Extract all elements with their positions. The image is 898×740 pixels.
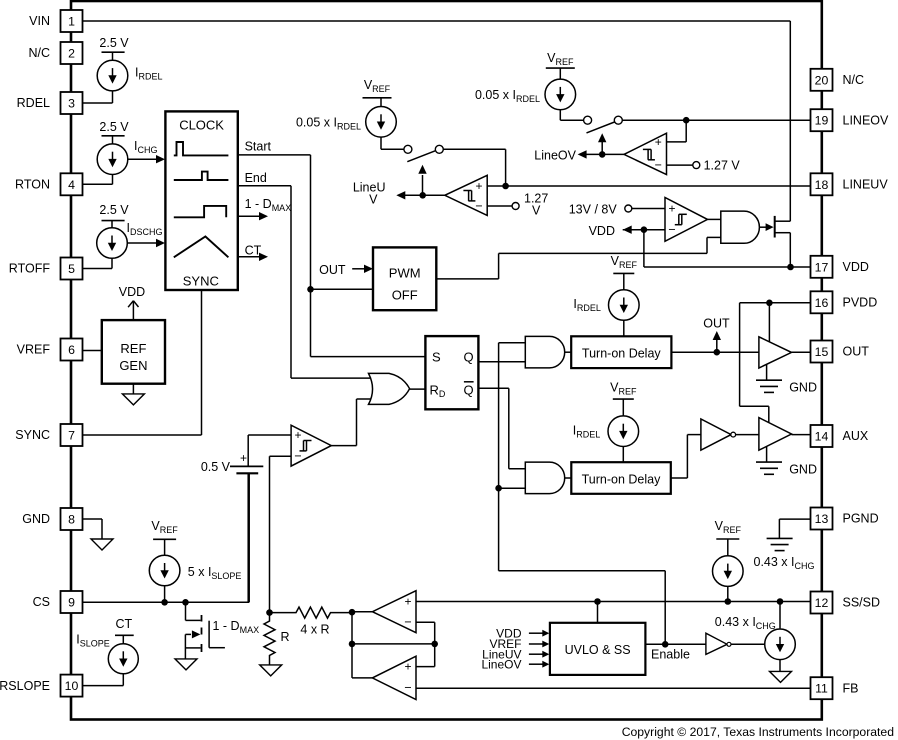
- block PWM OFF: [373, 247, 436, 310]
- label Enable: [651, 648, 690, 662]
- svg-text:+: +: [668, 201, 675, 215]
- pin 10 RSLOPE: [61, 675, 83, 697]
- svg-text:+: +: [294, 428, 301, 442]
- wire latch Q output to AND gate A1: [478, 361, 525, 363]
- pin 12 SS/SD: [811, 592, 833, 614]
- junction dot PWM OFF tap on Start line: [307, 286, 314, 293]
- pin label LINEOV: [843, 113, 890, 127]
- current source IDSCHG: [83, 221, 128, 269]
- pin label VREF: [17, 343, 51, 357]
- svg-text:End: End: [245, 171, 267, 185]
- current source 0.43 x ICHG pullup: [713, 539, 744, 602]
- pin label SYNC: [15, 428, 50, 442]
- label IRDEL delay 1: [573, 297, 601, 313]
- wire OUT driver to pin 15: [792, 351, 811, 353]
- pin label LINEUV: [843, 178, 889, 192]
- arrow OUT into PWM OFF: [352, 265, 373, 273]
- comparator U2 LINEOV: [624, 133, 667, 174]
- vref header for delay source 1: [611, 254, 638, 273]
- AND gate A1: [525, 336, 564, 368]
- clock waveform start pulse: [174, 142, 229, 155]
- svg-text:+: +: [475, 179, 482, 193]
- svg-text:9: 9: [68, 596, 75, 610]
- wire node N2 to comparator input node N3: [352, 643, 435, 645]
- pin 5 RTOFF: [61, 258, 83, 280]
- svg-text:6: 6: [68, 343, 75, 357]
- wire PWM OFF input from Start line: [311, 288, 374, 290]
- svg-text:LineOV: LineOV: [481, 657, 521, 671]
- wire LineUV output arrow: [396, 191, 445, 199]
- clock output arrow CT: [238, 253, 268, 261]
- svg-text:N/C: N/C: [28, 46, 50, 60]
- svg-text:VDD: VDD: [589, 224, 615, 238]
- wire comparator A plus input to SS/SD line: [416, 601, 811, 603]
- pin label RSLOPE: [0, 679, 50, 693]
- label VDD at comparator U3: [589, 224, 615, 238]
- label GND AUX driver: [789, 463, 817, 477]
- label 4 x R: [300, 623, 329, 637]
- label LineUV: [353, 181, 386, 207]
- label IRDEL delay 2: [573, 424, 601, 440]
- pin label OUT: [843, 345, 870, 359]
- svg-text:SS/SD: SS/SD: [843, 596, 881, 610]
- svg-text:1: 1: [68, 15, 75, 29]
- arrow VDD node pointing left: [623, 226, 632, 234]
- pin 20 N/C: [811, 69, 833, 91]
- pin label VDD: [843, 260, 869, 274]
- label 5 x ISLOPE: [188, 565, 242, 581]
- label 0.5 V: [201, 460, 231, 474]
- current source ICHG: [83, 136, 128, 185]
- switch LINEOV: [584, 116, 623, 133]
- svg-text:SYNC: SYNC: [183, 274, 219, 289]
- wire comparator B minus input to FB pin 11 line: [416, 687, 811, 689]
- svg-text:VIN: VIN: [29, 14, 50, 28]
- inverter Enable: [706, 633, 731, 654]
- svg-text:+: +: [404, 660, 411, 674]
- junction dot LineUV output: [419, 192, 426, 199]
- comparator B: [372, 656, 416, 699]
- wire PVDD rail pin 16 to drivers: [740, 303, 811, 423]
- arrow VDD into UVLO: [529, 630, 549, 637]
- pin 6 VREF: [61, 339, 83, 361]
- junction dot SS/SD at UVLO: [594, 598, 601, 605]
- wire node N3 to comparator A minus and comparator B plus: [416, 622, 435, 666]
- junction dot LINEUV sense tap: [502, 183, 509, 190]
- wire comparator U5 output to OR gate lower input: [331, 399, 376, 446]
- junction dot Enable net at AND gate A2 input: [495, 485, 502, 492]
- wire VIN pin1 to internal switch drain: [83, 21, 791, 221]
- svg-text:1.27 V: 1.27 V: [704, 159, 741, 173]
- arrow LineUV into UVLO: [529, 651, 549, 658]
- pin 18 LINEUV: [811, 173, 833, 195]
- label VDD input UVLO: [496, 626, 522, 640]
- junction dot LINEOV sense tap: [683, 117, 690, 124]
- ground below Dmax switch: [175, 659, 197, 670]
- svg-text:2.5 V: 2.5 V: [99, 203, 129, 217]
- label 1.27 V for U2: [704, 159, 741, 173]
- label LineOV input UVLO: [481, 657, 521, 671]
- arrow VDD out of REF GEN: [128, 301, 138, 320]
- wire PGND pin 13 to ground: [779, 519, 810, 538]
- pin 2 N/C: [61, 42, 83, 64]
- svg-text:Turn-on Delay: Turn-on Delay: [582, 473, 661, 487]
- MOSFET Q2 Dmax switch: [185, 602, 201, 659]
- current source IRDEL delay 2: [608, 399, 639, 462]
- svg-text:CT: CT: [115, 617, 132, 631]
- svg-text:GND: GND: [789, 381, 817, 395]
- junction dot PVDD feed OUT driver: [766, 300, 773, 307]
- arrow LineOV into UVLO: [529, 661, 549, 668]
- wire Turn-on Delay 1 to OUT driver: [671, 351, 759, 353]
- ground for OUT driver: [756, 364, 782, 392]
- label IDSCHG: [127, 221, 163, 237]
- pin label PVDD: [843, 296, 878, 310]
- svg-text:FB: FB: [843, 681, 859, 695]
- junction dot MOSFET source at VDD rail: [787, 264, 794, 271]
- svg-text:2.5 V: 2.5 V: [99, 36, 129, 50]
- gate bracket 1-DMAX: [209, 621, 225, 648]
- svg-text:17: 17: [815, 260, 829, 274]
- svg-text:Turn-on Delay: Turn-on Delay: [582, 347, 661, 361]
- clock waveform end pulse: [174, 172, 229, 180]
- wire UVLO Enable output to inverter: [645, 643, 706, 645]
- svg-text:OUT: OUT: [319, 263, 346, 277]
- pin label N/C: [843, 73, 865, 87]
- junction dot node N2: [349, 641, 356, 648]
- label 1 - DMAX output: [245, 197, 292, 213]
- wire UVLO top feed from SS/SD line: [597, 602, 599, 623]
- wire AND U4 to MOSFET gate: [759, 223, 773, 231]
- svg-text:OUT: OUT: [703, 317, 730, 331]
- arrow LineOV to switch: [598, 133, 606, 154]
- voltage label 2.5 V for ICHG source: [99, 120, 129, 136]
- current source IRDEL: [83, 52, 128, 103]
- svg-text:REF: REF: [120, 341, 146, 356]
- resistor 4 x R: [270, 607, 353, 618]
- svg-text:−: −: [655, 158, 662, 172]
- pin label SS/SD: [843, 596, 881, 610]
- comparator A: [372, 591, 416, 633]
- label 1 - DMAX gate: [213, 619, 260, 635]
- svg-text:V: V: [369, 193, 378, 207]
- label 0.05 x IRDEL OV: [475, 88, 540, 104]
- wire VDD node down to pin 17 rail: [644, 230, 811, 267]
- svg-text:12: 12: [815, 596, 829, 610]
- wire Enable net vertical to AND gates: [499, 343, 666, 645]
- svg-text:−: −: [475, 199, 482, 213]
- svg-text:5: 5: [68, 262, 75, 276]
- svg-text:PWM: PWM: [389, 266, 421, 281]
- wire Enable net to AND gate A2 lower input: [499, 487, 526, 489]
- svg-text:Copyright © 2017, Texas Instru: Copyright © 2017, Texas Instruments Inco…: [622, 725, 894, 739]
- svg-text:−: −: [404, 681, 411, 695]
- label Start: [245, 140, 272, 154]
- wire PVDD down to OUT driver: [768, 303, 770, 342]
- pin 7 SYNC: [61, 424, 83, 446]
- pin label VIN: [29, 14, 50, 28]
- svg-text:GND: GND: [789, 463, 817, 477]
- block UVLO and SS: [550, 623, 646, 675]
- pin label PGND: [843, 512, 879, 526]
- junction dot CS at Dmax switch: [182, 599, 189, 606]
- AND gate U4: [721, 211, 760, 243]
- comparator U3 VDD monitor: [665, 198, 708, 242]
- clock block CLOCK: [165, 111, 237, 290]
- copyright notice: [622, 725, 894, 739]
- svg-text:18: 18: [815, 178, 829, 192]
- ground at pin 8: [83, 519, 114, 550]
- svg-text:−: −: [404, 615, 411, 629]
- label R: [281, 630, 290, 644]
- terminal 13V/8V: [625, 205, 632, 212]
- wire Start: clock to S input of latch: [238, 155, 426, 357]
- pin 17 VDD: [811, 256, 833, 278]
- block REF GEN: [102, 320, 165, 384]
- comparator U5 PWM: [291, 425, 331, 466]
- pin label RDEL: [17, 96, 50, 110]
- current source 5 x ISLOPE: [149, 539, 180, 602]
- label GND OUT driver: [789, 381, 817, 395]
- svg-text:+: +: [240, 451, 247, 465]
- current source ISLOPE: [83, 635, 139, 685]
- svg-text:2: 2: [68, 47, 75, 61]
- vref header for UV bias source: [363, 78, 392, 98]
- wire 0.5V battery plus to comparator U5 plus input: [248, 435, 291, 466]
- svg-text:19: 19: [815, 114, 829, 128]
- wire IDSCHG arrow into clock: [128, 239, 166, 247]
- wire inverter to AUX driver: [735, 434, 759, 436]
- svg-text:14: 14: [815, 430, 829, 444]
- driver AUX buffer: [759, 418, 792, 451]
- pin 3 RDEL: [61, 92, 83, 114]
- label VDD above REF GEN: [119, 285, 145, 299]
- ground below pulldown source: [770, 671, 792, 682]
- label End: [245, 171, 267, 185]
- arrow VREF into UVLO: [529, 641, 549, 648]
- wire comparator U5 minus input to divider tap: [270, 456, 292, 612]
- svg-text:R: R: [281, 630, 290, 644]
- wire 13V/8V to comparator U3: [632, 208, 665, 210]
- pin 14 AUX: [811, 425, 833, 447]
- junction dot divider tap: [266, 609, 273, 616]
- label LineOV: [534, 149, 576, 163]
- svg-text:VREF: VREF: [17, 343, 51, 357]
- junction dot CS at 5xIslope source: [161, 599, 168, 606]
- label 0.43 x ICHG pulldown: [715, 615, 776, 631]
- junction dot LineOV output: [599, 151, 606, 158]
- label 0.05 x IRDEL UV: [296, 116, 361, 132]
- ground PGND earth: [767, 538, 793, 550]
- vref header for OV bias source: [546, 51, 575, 68]
- label LineUV input UVLO: [482, 647, 521, 661]
- driver OUT buffer: [759, 337, 792, 368]
- junction dot node N1 comparator A output: [349, 609, 356, 616]
- svg-text:SYNC: SYNC: [15, 428, 50, 442]
- svg-text:+: +: [655, 135, 662, 149]
- arrow LineUV to switch: [418, 165, 426, 196]
- wire node N1 to node N2 and comparator B output: [352, 612, 372, 678]
- resistor R: [264, 613, 275, 665]
- svg-text:RDEL: RDEL: [17, 96, 50, 110]
- label VREF input UVLO: [489, 637, 521, 651]
- wire LINEOV switch to pin 19: [622, 119, 810, 121]
- svg-text:Q: Q: [464, 350, 474, 365]
- label OUT node: [703, 317, 730, 331]
- svg-text:11: 11: [815, 682, 828, 696]
- wire clock SYNC output to pin 7: [83, 290, 202, 435]
- wire AUX driver to pin 14: [792, 434, 811, 436]
- label CT above ISLOPE source: [115, 617, 134, 635]
- wire comparator A output node: [352, 611, 372, 613]
- battery 0.5V: [230, 451, 263, 602]
- vref header for delay source 2: [610, 381, 637, 400]
- pin 11 FB: [811, 677, 833, 699]
- wire CS line pin 9 to slope network: [83, 473, 250, 602]
- svg-text:20: 20: [815, 73, 829, 87]
- wire LINEOV tap down to comparator U2 plus input: [667, 120, 687, 142]
- pin label GND: [22, 512, 50, 526]
- wire AND A1 to Turn-on Delay 1: [565, 351, 572, 353]
- svg-text:13: 13: [815, 512, 829, 526]
- svg-text:8: 8: [68, 513, 75, 527]
- junction dot Enable node: [662, 641, 669, 648]
- current source 0.05 x IRDEL UV: [366, 98, 404, 150]
- svg-text:10: 10: [65, 679, 79, 693]
- svg-text:3: 3: [68, 97, 75, 111]
- pin label FB: [843, 681, 859, 695]
- svg-text:+: +: [404, 594, 411, 608]
- inverter AUX: [701, 419, 736, 450]
- svg-text:V: V: [532, 204, 541, 218]
- svg-text:Q: Q: [464, 383, 474, 398]
- svg-text:4 x R: 4 x R: [300, 623, 329, 637]
- svg-text:RSLOPE: RSLOPE: [0, 679, 50, 693]
- label ISLOPE: [76, 633, 110, 649]
- voltage label 2.5 V for IDSCHG source: [99, 203, 129, 221]
- junction dot VDD node: [641, 226, 648, 233]
- pin label AUX: [843, 429, 869, 443]
- svg-text:Start: Start: [245, 140, 272, 154]
- label ICHG: [134, 139, 157, 155]
- junction dot OUT node: [714, 349, 721, 356]
- voltage label 2.5 V for IRDEL source: [99, 36, 129, 52]
- wire comparator U3 output to AND gate U4 top input: [708, 218, 721, 220]
- svg-text:PVDD: PVDD: [843, 296, 878, 310]
- clock waveform dmax: [174, 206, 226, 217]
- pin label RTOFF: [9, 262, 51, 276]
- comparator U1 minus input with 1.27V terminal: [487, 203, 519, 210]
- wire PWM OFF output to AND gate U4 lower input: [436, 237, 721, 279]
- wire LINEUV switch to sense node: [443, 149, 505, 186]
- junction dot SS/SD at pullup source: [725, 598, 732, 605]
- svg-text:OUT: OUT: [843, 345, 870, 359]
- svg-text:LineOV: LineOV: [534, 149, 576, 163]
- pin 8 GND: [61, 508, 83, 530]
- svg-text:4: 4: [68, 178, 75, 192]
- wire LineOV output arrow: [578, 150, 624, 158]
- svg-text:RTOFF: RTOFF: [9, 262, 51, 276]
- label CT output: [245, 244, 262, 258]
- ground for AUX driver: [756, 446, 782, 474]
- SR latch: [425, 336, 478, 409]
- wire OR gate output to latch RD input: [409, 388, 425, 390]
- svg-text:GND: GND: [22, 512, 50, 526]
- svg-text:LINEUV: LINEUV: [843, 178, 889, 192]
- current source IRDEL delay 1: [609, 273, 640, 336]
- label 13V / 8V: [569, 203, 618, 217]
- block Turn-on Delay 2: [571, 462, 671, 494]
- label OUT into PWM OFF: [319, 263, 346, 277]
- wire pin 6 to REF GEN: [83, 350, 102, 352]
- pin label CS: [33, 595, 50, 609]
- current source 0.05 x IRDEL OV: [545, 68, 584, 120]
- svg-text:N/C: N/C: [843, 73, 865, 87]
- clock waveform ct ramp: [174, 237, 229, 258]
- wire latch Qbar output to AND gate A2: [478, 388, 525, 469]
- svg-text:GEN: GEN: [119, 358, 147, 373]
- svg-text:S: S: [432, 350, 441, 365]
- svg-text:RTON: RTON: [15, 178, 50, 192]
- current source 0.43 x ICHG pulldown: [765, 602, 796, 672]
- svg-text:CS: CS: [33, 595, 50, 609]
- svg-text:VDD: VDD: [843, 260, 869, 274]
- svg-text:VDD: VDD: [119, 285, 145, 299]
- wire comparator U1 plus input line to pin 18: [487, 185, 810, 187]
- label 0.43 x ICHG pullup: [754, 555, 815, 571]
- label 1.27 V for U1: [524, 192, 548, 218]
- wire AND A2 to Turn-on Delay 2: [565, 477, 572, 479]
- pin 16 PVDD: [811, 291, 833, 313]
- ground below REF GEN: [122, 384, 144, 405]
- pin label N/C: [28, 46, 50, 60]
- wire End: clock to OR gate top input: [238, 186, 374, 378]
- wire ICHG arrow into clock: [128, 155, 165, 163]
- svg-text:AUX: AUX: [843, 429, 869, 443]
- junction dot SS/SD at pulldown source: [777, 598, 784, 605]
- svg-text:OFF: OFF: [392, 288, 418, 303]
- svg-text:−: −: [668, 223, 675, 237]
- svg-text:7: 7: [68, 429, 75, 443]
- block Turn-on Delay 1: [571, 336, 671, 368]
- pin label RTON: [15, 178, 50, 192]
- wire inverter bubble to discharge source: [731, 643, 764, 645]
- svg-text:13V / 8V: 13V / 8V: [569, 203, 618, 217]
- svg-text:Enable: Enable: [651, 648, 690, 662]
- OR gate: [369, 373, 410, 404]
- MOSFET Q1 VDD switch: [775, 216, 791, 267]
- ground below resistor R: [260, 665, 282, 676]
- pin 19 LINEOV: [811, 109, 833, 131]
- svg-text:PGND: PGND: [843, 512, 879, 526]
- arrow OUT node up: [713, 331, 721, 352]
- pin 1 VIN: [61, 10, 83, 32]
- comparator U1 LINEUV: [445, 175, 487, 215]
- wire VDD node to comparator U3 inverting input: [623, 229, 665, 231]
- label IRDEL: [135, 66, 163, 82]
- pin 9 CS: [61, 591, 83, 613]
- comparator U2 minus input with 1.27V terminal: [667, 162, 700, 169]
- svg-text:2.5 V: 2.5 V: [99, 120, 129, 134]
- vref header 5xIslope: [151, 519, 178, 539]
- AND gate A2: [525, 462, 564, 494]
- svg-text:15: 15: [815, 345, 829, 359]
- svg-text:CLOCK: CLOCK: [179, 118, 224, 133]
- pin 4 RTON: [61, 173, 83, 195]
- junction dot node N3: [431, 641, 438, 648]
- switch LINEUV: [404, 145, 443, 161]
- pin 13 PGND: [811, 508, 833, 530]
